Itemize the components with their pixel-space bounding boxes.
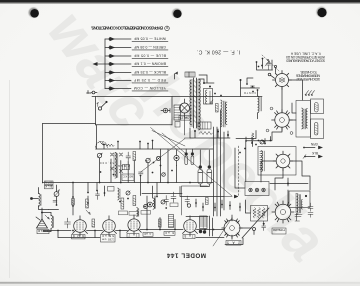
tube V9 (2A5 radial): [222, 218, 242, 238]
label under striped cap: [164, 231, 175, 235]
padder X circle: [156, 156, 160, 160]
resistor R-g: [133, 196, 136, 206]
line input cap: [185, 72, 195, 77]
wire right column links: [272, 87, 288, 206]
wire left risers: [73, 183, 97, 206]
svg-text:BLACK — 0.25 MF: BLACK — 0.25 MF: [134, 70, 166, 74]
stacked caps right of V4: [308, 203, 313, 217]
resistor R-a: [216, 104, 219, 113]
oscillator coil (dark): [113, 153, 117, 179]
volume control circle: [146, 158, 151, 163]
resistor zigzag below: [199, 132, 213, 135]
left arrow terminal: [96, 63, 105, 65]
svg-text:RED — 0.25 MF: RED — 0.25 MF: [134, 78, 166, 82]
wire lower-mid horizontals: [142, 194, 182, 216]
trimmer compartment box upper: [311, 99, 324, 114]
wave switch contacts: [305, 91, 315, 96]
resistor R-d: [72, 199, 75, 206]
junction dots bottom row: [57, 229, 214, 232]
svg-text:BY-PASS CONDENSER BLOCK CONNEC: BY-PASS CONDENSER BLOCK CONNECTIONS.: [91, 25, 163, 30]
hole punch middle: [172, 8, 182, 18]
cap C-b: [139, 172, 144, 174]
caps in det box: [185, 196, 190, 205]
V-shaped wire at output tube: [213, 218, 232, 246]
cap near coupling coil: [251, 86, 255, 88]
IF can core: [304, 109, 306, 129]
junction dots mid band: [100, 160, 173, 177]
small electrolytic b: [191, 149, 194, 165]
svg-text:BLK: BLK: [45, 185, 52, 189]
wire vertical bundle 3: [220, 110, 222, 216]
2nd IF can box around V3: [258, 147, 296, 176]
grid resistor R-b: [92, 219, 95, 227]
resistor R-j: [86, 199, 89, 208]
wire V9 surroundings: [225, 200, 252, 245]
text block: socket voltages note (upside down): [285, 52, 325, 63]
coupling cap bottom: [65, 218, 71, 228]
scanner top edge bar: [0, 0, 360, 3]
IF can winding primary: [302, 108, 304, 129]
ground triangle bottom-left: [37, 219, 48, 228]
T1 secondary winding: [199, 79, 201, 130]
trimmer circle 2: [97, 153, 102, 158]
wire bottom of transformer: [190, 128, 230, 138]
wire stubs lower detail: [196, 199, 240, 211]
output transformer winding ticks: [295, 194, 298, 212]
antenna coil L2: [39, 194, 42, 207]
wire to speaker socket box: [246, 141, 272, 182]
junction dots above bus149: [103, 140, 153, 146]
junction dot I: [41, 212, 43, 214]
gang section X mark 1: [111, 153, 114, 156]
trimmer capsule: [315, 103, 319, 113]
mid label box (osc section): [122, 174, 134, 181]
filter electrolytic 1: [198, 150, 203, 184]
svg-text:CONTR: CONTR: [244, 91, 256, 95]
grid cap terminal V1: [274, 65, 276, 72]
pilot light bulb: [180, 99, 190, 117]
junction dot F: [217, 131, 219, 133]
padder trimmer: [126, 191, 130, 195]
wire chassis box bottom: [96, 124, 173, 126]
svg-text:58 µF: 58 µF: [102, 234, 114, 238]
wire stubs above bus149: [104, 141, 153, 150]
pilot light label box: [179, 115, 191, 120]
junction dot cluster 2: [246, 83, 248, 85]
hole punch right: [316, 7, 326, 17]
IF transformer core: [224, 101, 226, 127]
antenna entry symbol: [87, 91, 98, 94]
table vertical bus wire: [104, 39, 106, 89]
junction dots right mid: [239, 141, 265, 154]
svg-text:BLK: BLK: [311, 151, 318, 155]
V2 socket pin circles: [266, 107, 293, 134]
junction dots on bus182: [72, 182, 191, 184]
svg-text:V. A.C. LINE. USE A: V. A.C. LINE. USE A: [290, 52, 321, 56]
oscillator coil can: [204, 89, 213, 105]
tube V2 (IF amp, radial pins): [272, 110, 293, 131]
junction dot C: [214, 93, 216, 95]
resistor zigzag above bus: [104, 144, 114, 147]
wire lower mid bus: [180, 187, 224, 197]
junction dot A: [203, 82, 205, 84]
svg-text:.1 µF: .1 µF: [144, 232, 152, 236]
wire stubs below bus: [88, 176, 157, 207]
diagonal wire to output: [242, 208, 269, 238]
svg-text:8 µF: 8 µF: [165, 231, 174, 235]
hole punch left: [29, 8, 39, 18]
fuse box on right chassis wall: [174, 105, 181, 120]
wire right column to IF can: [289, 80, 303, 120]
wire trimmer: [49, 185, 59, 210]
osc coil assembly: [118, 188, 121, 200]
dots lower detail: [195, 202, 241, 208]
page left edge line: [9, 80, 11, 278]
wire transformer top: [189, 72, 214, 83]
svg-text:I. F. — 260 K. C.: I. F. — 260 K. C.: [197, 49, 240, 55]
table row 3 terminal + label: [105, 53, 168, 58]
triangle label box: [37, 229, 49, 233]
junction dots above V1: [256, 58, 269, 68]
small circle under resistor box: [253, 228, 256, 235]
svg-text:TO CHASSIS.: TO CHASSIS.: [300, 70, 317, 74]
small circle component: [162, 173, 166, 177]
V7 label box: [127, 233, 139, 237]
comp block box: [198, 122, 211, 129]
junction dots near coupling coil: [252, 86, 259, 93]
junction dot B: [209, 86, 211, 88]
arrow cluster above V1: [265, 61, 270, 66]
small zigzag resistor below coil: [252, 133, 255, 140]
tube V4 (output, radial pins): [272, 201, 294, 223]
output coil block: [200, 216, 208, 229]
gang section X mark 3: [111, 167, 114, 170]
antenna terminal labels: [45, 180, 54, 184]
antenna lead arrow GRN: [303, 142, 322, 149]
junction dots left risers: [72, 190, 98, 207]
cap above V1: [267, 64, 271, 71]
svg-text:YELLOW — COM: YELLOW — COM: [134, 86, 166, 90]
speaker socket box: [245, 182, 269, 196]
IF transformer winding left: [221, 100, 223, 127]
gang condenser arc dashed: [96, 142, 108, 148]
IF can box (right): [296, 101, 311, 138]
dial cord diagonal 2: [152, 131, 185, 147]
wire V3 area links: [261, 161, 310, 190]
resistor R-i: [121, 198, 124, 209]
wire stubs row y141: [246, 137, 271, 144]
mid circle jack 3: [161, 200, 165, 204]
wire antenna cluster: [32, 182, 49, 210]
V5 label box: [72, 234, 86, 239]
dial cord diagonal 3: [140, 139, 185, 173]
IF can winding secondary: [306, 109, 307, 129]
power transformer T1 core: [194, 78, 197, 128]
wire mid verticals: [100, 149, 177, 183]
voice coil winding: [301, 200, 302, 210]
wire bottom bus lower: [58, 237, 170, 239]
wire stubs above V1: [257, 59, 273, 71]
tube V8 (75): [183, 216, 198, 237]
svg-text:BROWN — 0.1 MF: BROWN — 0.1 MF: [134, 61, 166, 65]
junction dot above V1 left: [240, 79, 242, 81]
phono jack circle: [174, 150, 179, 166]
small cap left: [53, 201, 57, 203]
table header text "BY-PASS CONDENSER BLOCK CONNECTIONS" (upside down): [91, 25, 169, 30]
gang arrow: [99, 141, 103, 145]
junction dots lower mid: [87, 192, 158, 207]
speaker output box: [289, 191, 310, 208]
wire top bus y96: [92, 96, 262, 98]
tube V5 (6D6): [73, 216, 88, 237]
wire transformer left drop: [185, 117, 191, 138]
junction dot G: [227, 134, 229, 136]
box around detector mid: [182, 186, 208, 215]
svg-text:WHITE — 0.05 MF: WHITE — 0.05 MF: [134, 36, 166, 40]
junction dots row y141: [245, 140, 271, 145]
dashed dial cord to V1: [262, 55, 279, 71]
resistor R-h: [206, 198, 209, 205]
dial cord diagonal 2b: [162, 133, 185, 153]
wire right mid links: [235, 131, 256, 189]
tube V1 (1st det, radial pins): [273, 71, 292, 90]
svg-text:MODEL 144: MODEL 144: [166, 252, 206, 259]
wire vertical bundle 1: [213, 127, 215, 216]
svg-text:TYPE 2A5: TYPE 2A5: [273, 228, 285, 232]
wire left inner vertical: [96, 125, 98, 149]
V4 label box: [272, 228, 286, 234]
wire through dot H: [270, 178, 308, 186]
cap C-c with label: [170, 192, 178, 207]
tube V6 (6A7): [102, 216, 117, 237]
svg-text:BLUE — 0.05 MF: BLUE — 0.05 MF: [134, 53, 166, 57]
wire vertical bundle 2: [216, 127, 218, 216]
V8 label box: [183, 234, 195, 238]
small box lower mid: [108, 187, 115, 192]
electrolytic striped cap bottom: [169, 215, 174, 228]
label boxes under mid-low parts: [119, 211, 151, 216]
small electrolytic a: [185, 149, 188, 165]
IF coil mid-bottom: [137, 208, 139, 217]
junction blob L2: [30, 197, 33, 200]
T1 primary winding: [190, 80, 192, 125]
mid circle jack 2: [148, 202, 153, 207]
power switch lever: [97, 101, 107, 110]
table row 5 terminal + label: [105, 70, 168, 75]
wire electrolytics bottom: [200, 184, 209, 187]
junction dot E: [194, 130, 196, 132]
wire long bus y149: [96, 148, 214, 150]
table row 6 terminal + label: [105, 78, 168, 83]
tube V3 (2nd det, radial pins): [273, 151, 293, 171]
wire at coil block: [186, 216, 224, 238]
junction dot D: [220, 95, 222, 97]
small box below fuse: [175, 122, 180, 128]
text block: voltmeter note (upside down): [296, 70, 320, 81]
tube V7 (77): [127, 215, 142, 235]
T1 winding ladder ticks: [190, 80, 201, 126]
junction dot C-d: [165, 207, 167, 209]
table row 1 terminal + label: [105, 36, 168, 41]
trimmer circle: [54, 190, 60, 197]
dial cord diagonal: [151, 128, 233, 197]
junction dot J: [263, 223, 265, 225]
dashed mechanical link vertical: [238, 146, 240, 196]
wire bottom bus: [43, 230, 225, 231]
cap at dot J: [262, 221, 266, 231]
winding mid-low: [153, 198, 155, 209]
wire long bus y182: [43, 182, 214, 184]
resistor R-f: [133, 152, 136, 161]
filter electrolytic 2: [207, 150, 212, 184]
wire bottom left links: [36, 208, 51, 232]
arrow at coil: [45, 215, 49, 219]
V9 label box: [226, 240, 241, 245]
wire outer border top-left: [43, 123, 96, 125]
connector arrow above table: [175, 72, 178, 79]
table row 7 terminal + label: [105, 86, 168, 91]
tone cap box: [123, 165, 130, 170]
wire cluster left arm: [241, 78, 260, 97]
scanner bottom edge shading: [0, 0, 1, 1]
cap C-d: [164, 196, 169, 206]
output transformer winding: [297, 194, 299, 215]
antenna coil L1: [51, 213, 54, 232]
pilot lamp circle: [161, 108, 170, 112]
wire chassis box right: [171, 97, 173, 126]
small circle pair in det box: [144, 204, 191, 209]
svg-text:GREEN — 0.05 MF: GREEN — 0.05 MF: [134, 45, 166, 49]
wire risers bottom row: [58, 205, 175, 238]
V6 label box: [101, 234, 116, 242]
wire outer border left: [42, 124, 44, 184]
junction dot K: [56, 204, 58, 206]
speaker lower marks: [295, 213, 302, 221]
arrow near left tube: [86, 210, 90, 215]
svg-text:130 cm: 130 cm: [101, 238, 114, 242]
svg-text:50,000: 50,000: [100, 161, 115, 165]
IF transformer winding right: [226, 102, 227, 124]
second trimmer capsule right: [315, 123, 318, 136]
table row 4 terminal + label: [105, 61, 168, 66]
output transformer core: [299, 195, 300, 214]
table row 2 terminal + label: [105, 45, 168, 50]
trimmer compartment box lower: [311, 119, 324, 139]
label 77 under mid components: [143, 232, 153, 236]
output grid resistors box: [251, 206, 268, 222]
svg-text:GRN: GRN: [45, 180, 52, 184]
blobs under coil block: [199, 230, 206, 234]
cap pair mid-left: [96, 191, 100, 200]
junction dot H: [287, 183, 289, 185]
choke coil in IF can: [260, 151, 264, 172]
cathode resistor R-c: [159, 219, 162, 227]
gang section X mark 2: [120, 153, 123, 156]
speaker junction dot: [305, 195, 307, 197]
B+ label arrows mid: [224, 195, 238, 198]
svg-text:GRN: GRN: [310, 142, 318, 146]
cap C-a: [126, 152, 131, 162]
ground lead arrow BLK: [303, 151, 323, 159]
wire chassis box left: [95, 97, 97, 126]
gang section X mark 4: [120, 170, 123, 173]
osc coupling coil left of V1: [258, 90, 262, 119]
grid cap circle V1: [268, 73, 274, 78]
tube V2 cathode circle: [260, 140, 264, 144]
wire vertical bundle 4: [223, 132, 225, 210]
arrow into osc coil: [210, 100, 214, 103]
